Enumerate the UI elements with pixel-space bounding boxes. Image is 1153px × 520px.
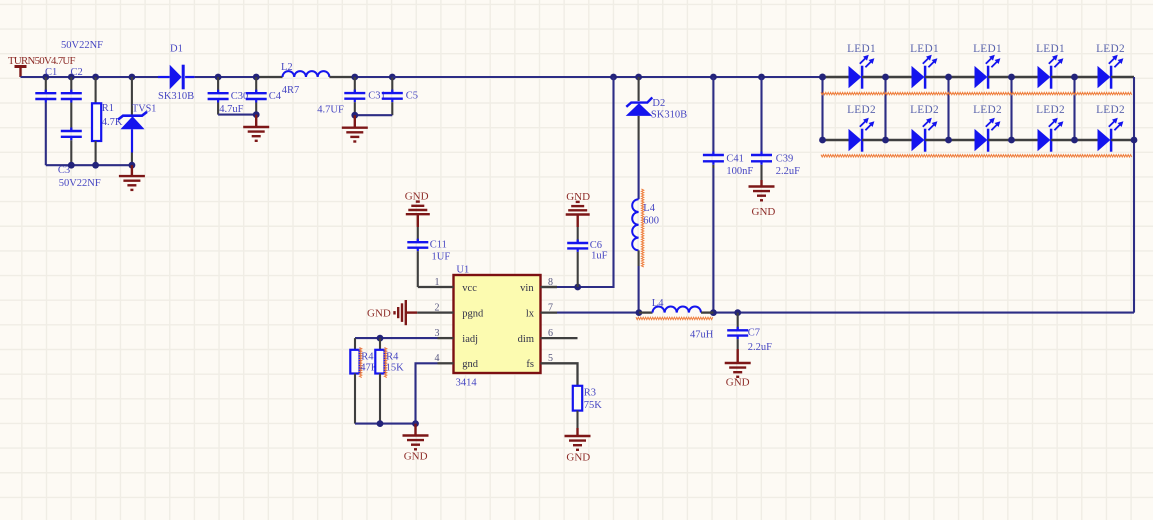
svg-text:vin: vin	[520, 283, 534, 294]
svg-text:GND: GND	[752, 206, 776, 218]
port TURN50V4.7UF	[8, 55, 76, 77]
junction LED tie 1 top	[819, 74, 826, 81]
wire pin4 to gnd corner	[416, 363, 438, 423]
junction C39/rail	[758, 74, 765, 81]
ground (input section)	[119, 165, 145, 190]
svg-text:2.2uF: 2.2uF	[748, 342, 772, 353]
svg-text:4.7UF: 4.7UF	[317, 104, 344, 115]
junction LED tie 4 top	[1008, 74, 1015, 81]
svg-text:R4: R4	[386, 352, 399, 363]
pin 1 vcc	[435, 277, 478, 294]
junction C41/rail	[710, 74, 717, 81]
capacitor C4	[246, 77, 282, 115]
junction R1/rail	[92, 74, 99, 81]
wire rail C5 to LED array	[392, 76, 822, 78]
svg-text:1: 1	[435, 277, 440, 288]
wire fs to R3	[557, 363, 578, 386]
pin 2 pgnd	[435, 302, 485, 319]
diode D2	[626, 77, 687, 140]
svg-text:LED2: LED2	[1096, 43, 1125, 55]
svg-text:D1: D1	[170, 43, 183, 54]
junction D2/rail	[635, 74, 642, 81]
ground (C31/C5)	[342, 115, 368, 141]
capacitor C30	[208, 77, 249, 115]
svg-text:C41: C41	[726, 154, 744, 165]
junction LED tie 3 top	[945, 74, 952, 81]
junction TVS1/rail	[129, 74, 136, 81]
junction C41/lx	[710, 309, 717, 316]
wire LED tie 1	[821, 77, 823, 140]
wire LED tie 5	[1073, 77, 1075, 140]
junction C31/ground	[351, 112, 358, 119]
svg-text:7: 7	[548, 302, 553, 313]
capacitor C41	[703, 152, 754, 178]
pin 8 vin	[520, 277, 557, 294]
inductor L4 (47uH)	[636, 298, 714, 340]
svg-text:GND: GND	[726, 377, 750, 389]
svg-text:L4: L4	[643, 203, 655, 214]
wire C11 to pin1	[418, 286, 438, 288]
capacitor C6	[567, 227, 607, 287]
junction C1/rail	[42, 74, 49, 81]
capacitor C1	[35, 67, 57, 165]
resistor R3	[573, 386, 602, 428]
svg-text:50V22NF: 50V22NF	[59, 178, 101, 189]
svg-text:TVS1: TVS1	[132, 104, 156, 115]
svg-text:15K: 15K	[386, 362, 405, 373]
svg-text:50V22NF: 50V22NF	[61, 40, 103, 51]
junction TVS1/bottom rail	[129, 162, 136, 169]
LED LED1 (top row, cell 3)	[949, 43, 1012, 88]
squiggle net marker (bottom LED row)	[821, 155, 1132, 157]
wire input bottom rail	[46, 164, 132, 166]
power port GND (above C11)	[405, 191, 430, 228]
pin 7 lx	[526, 302, 557, 319]
svg-text:L4: L4	[652, 298, 664, 309]
svg-text:C1: C1	[45, 67, 57, 78]
junction R4b/bottom	[377, 420, 384, 427]
resistor R4 (47K)	[350, 338, 378, 424]
svg-text:75K: 75K	[584, 400, 603, 411]
svg-text:LED2: LED2	[847, 104, 876, 116]
LED LED1 (top row, cell 1)	[823, 43, 886, 88]
junction gnd wire/bottom	[412, 420, 419, 427]
svg-text:5: 5	[548, 353, 553, 364]
svg-text:4.7uF: 4.7uF	[219, 104, 243, 115]
svg-text:U1: U1	[456, 265, 469, 276]
svg-text:GND: GND	[367, 308, 391, 320]
LED LED1 (top row, cell 4)	[1012, 43, 1075, 88]
svg-text:C11: C11	[430, 240, 447, 251]
svg-text:LED2: LED2	[910, 104, 939, 116]
TVS diode TVS1	[118, 77, 156, 165]
junction C7/lx	[734, 309, 741, 316]
wire lx rail	[557, 312, 1134, 314]
capacitor C2	[61, 67, 83, 131]
svg-text:LED2: LED2	[1096, 104, 1125, 116]
wire LED tie 2	[884, 77, 886, 140]
LED LED2 (bottom row, cell 4)	[1012, 104, 1075, 152]
LED LED2 (bottom row, cell 1)	[823, 104, 886, 152]
power port GND (above C6)	[566, 191, 590, 227]
svg-text:LED1: LED1	[973, 43, 1002, 55]
svg-text:4R7: 4R7	[282, 85, 300, 96]
junction C2-C3/bottom rail	[68, 162, 75, 169]
junction C30/rail	[215, 74, 222, 81]
capacitor C11	[407, 227, 450, 287]
wire rail to C39	[760, 77, 762, 152]
pin 3 iadj	[435, 328, 479, 345]
svg-text:lx: lx	[526, 308, 535, 319]
pin 5 fs	[526, 353, 557, 370]
svg-text:LED1: LED1	[847, 43, 876, 55]
junction R1/bottom rail	[92, 162, 99, 169]
junction C4/rail	[253, 74, 260, 81]
wire rail L2 to C31	[329, 76, 392, 78]
wire D2 to L4	[638, 140, 640, 199]
resistor R4 (15K)	[375, 338, 404, 424]
svg-text:1UF: 1UF	[432, 252, 451, 263]
svg-text:LED2: LED2	[1036, 104, 1065, 116]
svg-text:6: 6	[548, 328, 553, 339]
junction C4/ground	[253, 111, 260, 118]
svg-text:R1: R1	[102, 103, 114, 114]
junction LED bottom right	[1131, 137, 1138, 144]
junction L4/lx left	[636, 309, 643, 316]
junction LED tie 1 bottom	[819, 137, 826, 144]
svg-text:C7: C7	[748, 328, 760, 339]
svg-text:pgnd: pgnd	[462, 308, 484, 319]
squiggle net marker (top LED row)	[821, 92, 1132, 94]
ground (R3)	[565, 428, 591, 464]
svg-text:L2: L2	[281, 62, 293, 73]
power port GND (pgnd)	[367, 300, 417, 325]
wire R4 bottoms to gnd	[355, 423, 416, 425]
wire C41 to lx	[712, 168, 714, 313]
svg-text:2.2uF: 2.2uF	[776, 166, 800, 177]
junction C6/vin	[574, 284, 581, 291]
capacitor C5	[382, 77, 418, 115]
svg-text:gnd: gnd	[462, 359, 479, 370]
LED LED1 (top row, cell 2)	[886, 43, 949, 88]
svg-text:SK310B: SK310B	[651, 110, 687, 121]
ground (C7)	[725, 349, 751, 389]
LED LED2 (bottom row, cell 5)	[1075, 104, 1135, 152]
svg-text:C30: C30	[231, 91, 249, 102]
wire input rail	[21, 76, 159, 78]
svg-text:SK310B: SK310B	[158, 91, 194, 102]
svg-text:C5: C5	[406, 91, 418, 102]
svg-text:dim: dim	[518, 334, 534, 345]
svg-text:100nF: 100nF	[726, 166, 753, 177]
svg-text:47uH: 47uH	[690, 329, 714, 340]
svg-text:C2: C2	[71, 67, 83, 78]
ground (C39)	[749, 180, 776, 218]
wire rail to C41	[712, 77, 714, 152]
wire iadj	[355, 337, 438, 339]
LED LED2 (top row, cell 5)	[1075, 43, 1135, 88]
svg-text:GND: GND	[566, 452, 590, 464]
wire vin drop	[541, 77, 614, 287]
junction LED tie 4 bottom	[1008, 137, 1015, 144]
wire LED tie 4	[1010, 77, 1012, 140]
inductor L4 (600)	[632, 189, 659, 267]
resistor R1	[92, 77, 123, 165]
svg-text:C39: C39	[776, 154, 794, 165]
pin 4 gnd	[435, 353, 479, 370]
svg-text:3414: 3414	[456, 377, 478, 388]
svg-text:fs: fs	[526, 359, 534, 370]
LED LED2 (bottom row, cell 2)	[886, 104, 949, 152]
capacitor C3	[58, 128, 101, 190]
LED LED2 (bottom row, cell 3)	[949, 104, 1012, 152]
svg-text:R4: R4	[361, 352, 374, 363]
svg-text:C6: C6	[590, 240, 602, 251]
label 50V22NF (top)	[61, 40, 103, 51]
wire pgnd port to pin2	[417, 311, 437, 313]
capacitor C39	[751, 152, 800, 181]
junction R4b/iadj	[377, 335, 384, 342]
svg-text:D2: D2	[652, 98, 665, 109]
svg-text:LED1: LED1	[1036, 43, 1065, 55]
svg-text:LED2: LED2	[973, 104, 1002, 116]
ground (U1 gnd / R4s)	[403, 424, 429, 463]
ground (C30/C4)	[243, 115, 269, 141]
op-amp U1 (3414 LED driver)	[454, 265, 541, 389]
svg-text:8: 8	[548, 277, 553, 288]
wire LED tie 3	[947, 77, 949, 140]
svg-text:C4: C4	[269, 91, 282, 102]
junction C5/rail	[389, 74, 396, 81]
inductor L2	[281, 62, 329, 96]
wire C30-C4 bottom	[218, 114, 256, 116]
diode D1	[158, 43, 194, 102]
junction LED array left/rail	[819, 74, 826, 81]
svg-text:R3: R3	[584, 388, 596, 399]
wire rail D1 to L2	[194, 76, 282, 78]
svg-text:1uF: 1uF	[591, 251, 608, 262]
capacitor C7	[727, 313, 772, 353]
junction LED tie 5 bottom	[1071, 137, 1078, 144]
junction vin drop/rail	[610, 74, 617, 81]
svg-text:iadj: iadj	[462, 334, 478, 345]
junction LED tie 2 bottom	[882, 137, 889, 144]
junction C31/rail	[351, 74, 358, 81]
svg-text:LED1: LED1	[910, 43, 939, 55]
capacitor C31	[317, 77, 386, 115]
svg-text:vcc: vcc	[462, 283, 477, 294]
wire C31-C5 bottom	[355, 114, 393, 116]
pin 6 dim	[518, 328, 578, 345]
junction C2/rail	[68, 74, 75, 81]
junction LED tie 2 top	[882, 74, 889, 81]
svg-text:GND: GND	[404, 451, 428, 463]
svg-text:600: 600	[643, 216, 659, 227]
wire L4-600 to lx	[638, 266, 640, 313]
junction LED tie 5 top	[1071, 74, 1078, 81]
wire LED right return	[1133, 77, 1135, 313]
junction LED tie 3 bottom	[945, 137, 952, 144]
